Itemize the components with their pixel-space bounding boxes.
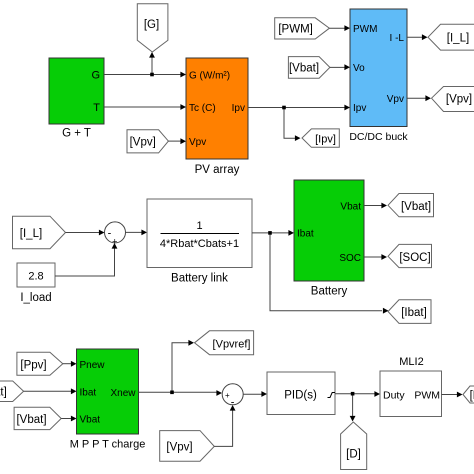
svg-text:[I_L]: [I_L] bbox=[20, 228, 42, 240]
svg-text:[Vpv]: [Vpv] bbox=[166, 442, 192, 454]
from tag [I_L] (middle) bbox=[13, 216, 66, 249]
from tag [Vpv] (PV input) bbox=[127, 130, 168, 153]
subsystem PV array bbox=[186, 58, 248, 176]
from tag [Vpv] (bottom) bbox=[160, 431, 215, 462]
svg-text:Duty: Duty bbox=[383, 390, 405, 402]
wire [Vpv] to sum2 bottom bbox=[214, 405, 235, 446]
constant 2.8 (I_load) bbox=[17, 263, 55, 304]
svg-text:Vpv: Vpv bbox=[189, 137, 206, 148]
wire sum1 to Battery link bbox=[126, 230, 148, 236]
wire Ipv to DC/DC buck with branch to [Ipv] bbox=[248, 105, 350, 141]
wire PID to MLI2 with branch down to [D] bbox=[335, 391, 380, 421]
svg-text:G (W/m²): G (W/m²) bbox=[189, 71, 230, 82]
svg-text:G: G bbox=[91, 70, 100, 82]
svg-text:Battery: Battery bbox=[311, 286, 348, 298]
svg-text:I_load: I_load bbox=[20, 292, 51, 304]
junction on Ipv wire bbox=[282, 106, 286, 110]
svg-text:Battery link: Battery link bbox=[171, 273, 228, 285]
svg-text:Pnew: Pnew bbox=[80, 360, 106, 371]
svg-text:G + T: G + T bbox=[62, 128, 91, 140]
subsystem G + T bbox=[49, 58, 104, 140]
wire sum2 to PID bbox=[243, 391, 267, 397]
wire [Ppv] to Pnew bbox=[63, 361, 77, 367]
PID controller PID(s) bbox=[267, 372, 335, 415]
goto tag [Ibat] (middle right) bbox=[388, 300, 431, 324]
svg-text:[G]: [G] bbox=[144, 19, 159, 31]
svg-text:[Vpvref]: [Vpvref] bbox=[213, 338, 251, 350]
wire MLI2 to [PWM] (cut at right edge) bbox=[442, 392, 463, 398]
junction on Xnew wire bbox=[170, 391, 174, 395]
svg-text:-: - bbox=[231, 397, 235, 409]
junction on G wire bbox=[150, 73, 154, 77]
wire Vpv to [Vpv] (top right) bbox=[407, 95, 431, 101]
wire [I_L] to sum1 bbox=[66, 230, 105, 236]
sum2 bbox=[222, 384, 243, 409]
from tag [Ppv] bbox=[17, 352, 63, 375]
svg-text:PWM: PWM bbox=[414, 390, 440, 402]
svg-text:I -L: I -L bbox=[390, 33, 405, 44]
wire Xnew to sum2 with branch to [Vpvref] bbox=[139, 340, 223, 396]
svg-text:PWM: PWM bbox=[353, 24, 377, 35]
wire [Vpv] to PV array bbox=[168, 138, 186, 144]
svg-text:1: 1 bbox=[196, 220, 202, 232]
svg-text:Ibat: Ibat bbox=[297, 229, 314, 240]
svg-text:[SOC]: [SOC] bbox=[399, 252, 430, 264]
svg-text:Vpv: Vpv bbox=[387, 94, 404, 105]
svg-text:[PWM]: [PWM] bbox=[278, 24, 313, 36]
from tag [PWM] bbox=[275, 18, 330, 39]
wire Vbat to [Vbat] bbox=[364, 203, 387, 209]
svg-text:+: + bbox=[112, 237, 117, 247]
junction on Duty wire bbox=[351, 392, 355, 396]
goto tag [SOC] bbox=[388, 244, 432, 267]
sum1 bbox=[105, 222, 126, 247]
svg-text:[I_L]: [I_L] bbox=[447, 33, 469, 45]
from tag [Vbat] (top) bbox=[288, 57, 330, 79]
svg-text:[P: [P bbox=[470, 390, 474, 402]
svg-text:MLI2: MLI2 bbox=[399, 356, 423, 368]
svg-text:[Ipv]: [Ipv] bbox=[315, 134, 336, 146]
svg-text:-: - bbox=[108, 228, 112, 240]
svg-text:[Ppv]: [Ppv] bbox=[20, 359, 46, 371]
goto tag [Vbat] (middle) bbox=[388, 194, 434, 217]
svg-text:PID(s): PID(s) bbox=[284, 390, 317, 402]
svg-text:Ipv: Ipv bbox=[232, 103, 245, 114]
svg-text:M P P T charge: M P P T charge bbox=[70, 439, 146, 451]
goto tag [G] bbox=[137, 4, 168, 52]
wire [Vbat] to Vbat input bbox=[61, 416, 76, 422]
wire G to PV array with branch up to [G] bbox=[104, 52, 186, 77]
wire T to PV array bbox=[104, 104, 186, 110]
svg-text:Xnew: Xnew bbox=[110, 388, 136, 399]
wire [Ibat] to Ibat input bbox=[24, 388, 77, 394]
subsystem Battery bbox=[294, 180, 364, 298]
svg-text:4*Rbat*Cbats+1: 4*Rbat*Cbats+1 bbox=[160, 238, 239, 250]
svg-text:[Ibat]: [Ibat] bbox=[0, 387, 7, 399]
svg-text:Ipv: Ipv bbox=[353, 103, 366, 114]
svg-text:PV array: PV array bbox=[195, 164, 240, 176]
svg-text:[Vbat]: [Vbat] bbox=[289, 63, 319, 75]
transfer fcn Battery link bbox=[147, 199, 252, 285]
svg-text:Vo: Vo bbox=[353, 63, 365, 74]
wire [Vbat] to Vo input bbox=[330, 64, 350, 70]
svg-text:2.8: 2.8 bbox=[28, 271, 43, 283]
svg-text:[Ibat]: [Ibat] bbox=[401, 307, 427, 319]
svg-text:DC/DC buck: DC/DC buck bbox=[349, 131, 408, 143]
goto tag [D] bbox=[341, 422, 367, 470]
wire Battery link to Battery with branch to [Ibat] bbox=[252, 230, 389, 314]
svg-text:Ibat: Ibat bbox=[80, 388, 97, 399]
svg-text:T: T bbox=[93, 102, 100, 114]
svg-text:[Vpv]: [Vpv] bbox=[130, 136, 156, 148]
goto tag [I_L] (top right) bbox=[428, 24, 474, 50]
wire I-L to [I_L] bbox=[407, 34, 428, 40]
svg-text:+: + bbox=[225, 391, 230, 400]
subsystem MLI2 bbox=[380, 356, 442, 417]
goto tag [Vpv] (top right) bbox=[432, 87, 474, 112]
svg-text:Vbat: Vbat bbox=[80, 415, 101, 426]
wire SOC to [SOC] bbox=[364, 254, 387, 260]
svg-text:[D]: [D] bbox=[346, 449, 361, 461]
from tag [Ibat] (cut at left edge) bbox=[0, 381, 24, 402]
goto tag [Ipv] bbox=[302, 129, 339, 147]
svg-text:SOC: SOC bbox=[339, 253, 361, 264]
svg-text:[Vbat]: [Vbat] bbox=[401, 201, 431, 213]
svg-text:Tc (C): Tc (C) bbox=[189, 103, 216, 114]
wire [PWM] to PWM input bbox=[329, 25, 350, 31]
from tag [Vbat] (bottom) bbox=[14, 407, 61, 429]
wire 2.8 to sum1 bottom bbox=[55, 243, 117, 276]
goto tag [Vpvref] bbox=[195, 331, 254, 355]
svg-text:[Vbat]: [Vbat] bbox=[16, 414, 46, 426]
svg-text:[Vpv]: [Vpv] bbox=[446, 94, 472, 106]
svg-text:Vbat: Vbat bbox=[340, 202, 361, 213]
junction on Ibat wire bbox=[268, 231, 272, 235]
subsystem M P P T charge bbox=[70, 349, 146, 451]
goto tag [PWM] (cut at right edge) bbox=[463, 386, 474, 403]
subsystem DC/DC buck bbox=[349, 9, 408, 143]
